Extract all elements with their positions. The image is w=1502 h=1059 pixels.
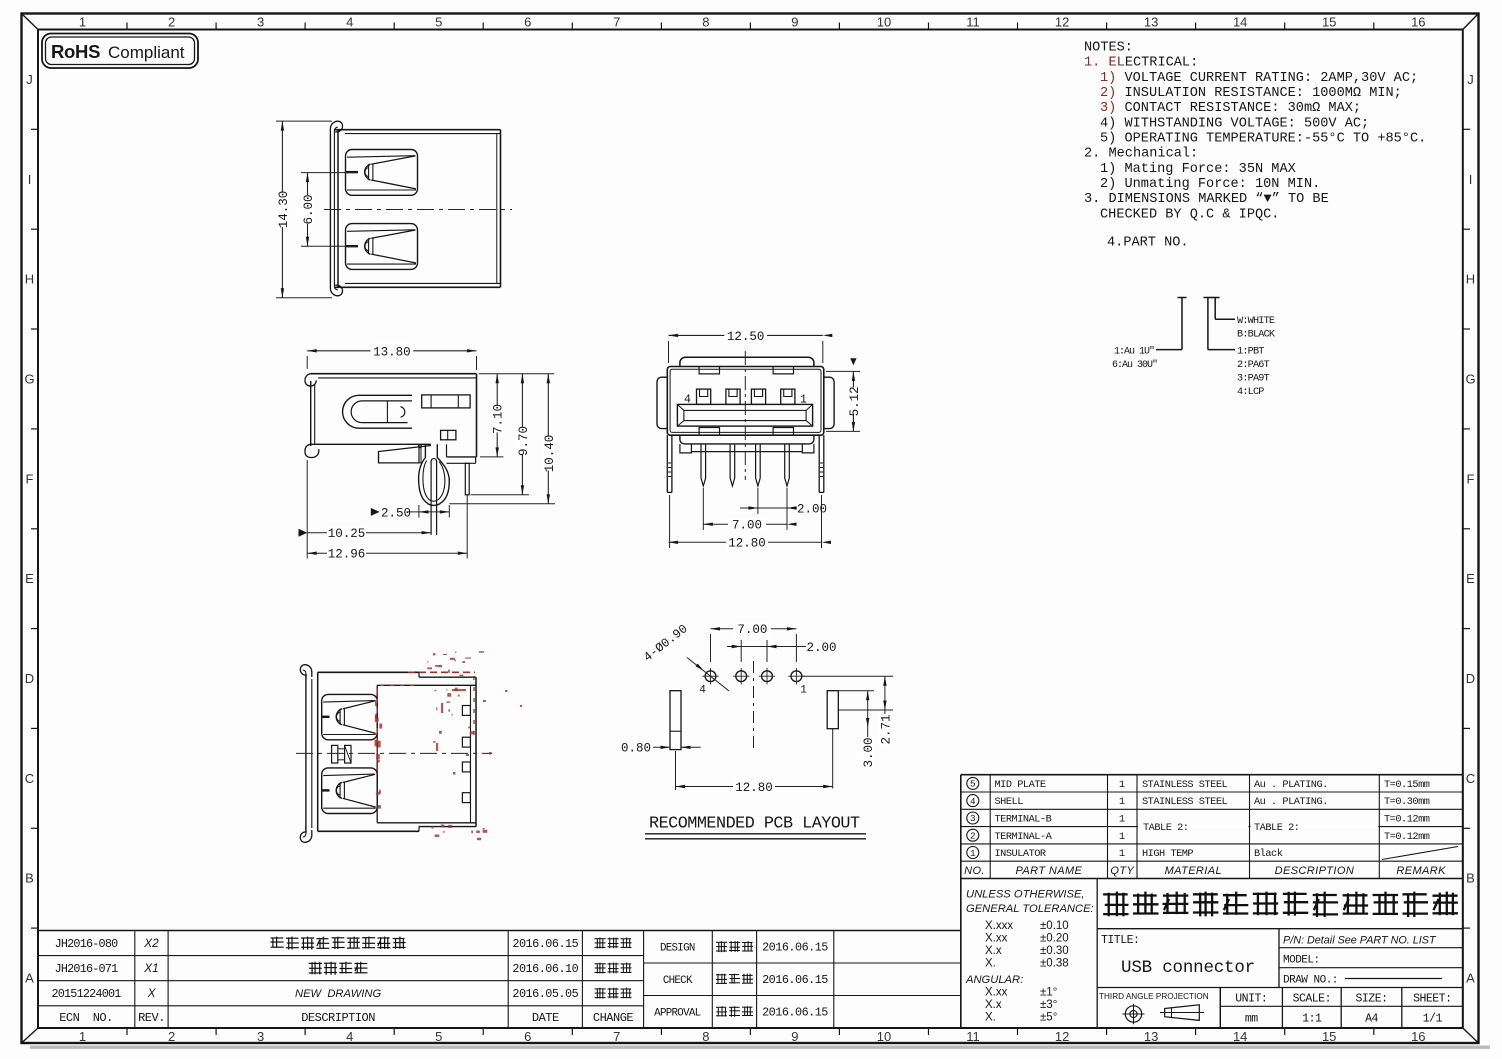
dim 13.80 [306,356,308,369]
svg-text:X: X [147,986,157,1000]
svg-text:QTY: QTY [1110,865,1134,877]
svg-text:3: 3 [970,813,976,824]
svg-text:12.96: 12.96 [328,548,366,562]
left slot (pcb) [670,691,681,750]
svg-text:STAINLESS STEEL: STAINLESS STEEL [1142,796,1228,808]
svg-text:14: 14 [1233,1029,1247,1044]
svg-text:PART NAME: PART NAME [1016,865,1083,877]
svg-text:1: 1 [1119,848,1125,860]
parts list table [961,774,1463,776]
svg-text:1: 1 [1119,814,1125,826]
svg-text:MATERIAL: MATERIAL [1165,865,1222,877]
svg-text:2.00: 2.00 [797,502,827,516]
svg-text:X.x: X.x [985,999,1002,1011]
svg-text:2) INSULATION RESISTANCE: 1000: 2) INSULATION RESISTANCE: 1000MΩ MIN; [1100,86,1402,101]
flange (bottom view) [305,676,307,831]
svg-text:3. DIMENSIONS MARKED “▼” TO BE: 3. DIMENSIONS MARKED “▼” TO BE [1084,192,1329,207]
svg-text:DRAW NO.:: DRAW NO.: [1283,975,1338,987]
svg-text:T=0.12mm: T=0.12mm [1384,831,1430,843]
svg-text:G: G [24,372,34,387]
svg-text:8: 8 [702,15,709,30]
svg-text:1: 1 [1119,779,1125,791]
svg-text:TERMINAL-B: TERMINAL-B [995,814,1052,826]
svg-text:TERMINAL-A: TERMINAL-A [995,831,1053,843]
curved shield leg [419,444,428,503]
svg-text:X.: X. [985,1012,996,1024]
svg-text:1: 1 [970,848,976,859]
ruler ticks and labels [126,23,128,30]
svg-text:X.x: X.x [985,945,1002,957]
terminal slots [462,706,470,716]
svg-text:STAINLESS STEEL: STAINLESS STEEL [1142,779,1228,791]
svg-text:USB connector: USB connector [1121,958,1255,978]
svg-text:H: H [1466,272,1475,287]
svg-text:10: 10 [877,1029,891,1044]
svg-text:MODEL:: MODEL: [1283,955,1320,967]
svg-text:5) OPERATING TEMPERATURE:-55°C: 5) OPERATING TEMPERATURE:-55°C TO +85°C. [1100,132,1426,147]
svg-text:W:WHITE: W:WHITE [1237,316,1275,327]
svg-text:C: C [25,771,34,786]
svg-text:2016.06.15: 2016.06.15 [762,1006,828,1020]
svg-text:±1°: ±1° [1040,987,1057,999]
view4 centerline [296,752,492,754]
svg-text:12: 12 [1055,1029,1069,1044]
svg-text:APPROVAL: APPROVAL [654,1008,700,1020]
pn/model/drawno cells [1279,947,1463,949]
svg-text:2: 2 [168,1029,175,1044]
svg-text:15: 15 [1322,1029,1336,1044]
svg-text:1: 1 [79,1029,86,1044]
svg-text:7.00: 7.00 [737,623,767,637]
side legs [666,435,668,492]
svg-text:H: H [25,272,34,287]
svg-text:±0.20: ±0.20 [1040,933,1069,945]
svg-text:NOTES:: NOTES: [1084,41,1133,56]
svg-text:DESCRIPTION: DESCRIPTION [1275,865,1355,877]
svg-text:2016.06.10: 2016.06.10 [512,962,578,976]
svg-text:1:Au 1U″: 1:Au 1U″ [1114,346,1154,358]
svg-text:9: 9 [791,1029,798,1044]
svg-text:D: D [25,671,34,686]
svg-text:7.10: 7.10 [492,404,506,434]
svg-text:TITLE:: TITLE: [1101,934,1139,947]
svg-text:2: 2 [970,831,976,842]
svg-text:UNIT:: UNIT: [1235,993,1267,1006]
svg-text:5.12: 5.12 [848,386,862,416]
svg-text:3: 3 [257,15,264,30]
unit/scale/size/sheet cells [1220,1005,1463,1007]
svg-text:I: I [28,172,32,187]
svg-text:Au . PLATING.: Au . PLATING. [1254,796,1328,808]
svg-text:MID PLATE: MID PLATE [995,779,1046,791]
svg-text:SHELL: SHELL [995,796,1024,808]
dims right side 7.10/9.70/10.40 [479,373,554,375]
svg-text:I: I [1469,172,1473,187]
svg-text:2. Mechanical:: 2. Mechanical: [1084,147,1198,162]
svg-text:1) Mating Force: 35N MAX: 1) Mating Force: 35N MAX [1100,162,1296,177]
svg-text:±0.30: ±0.30 [1040,945,1069,957]
svg-text:RoHS: RoHS [51,41,100,62]
svg-text:2016.06.15: 2016.06.15 [762,941,828,955]
dim 2.00 (pcb) [740,640,742,662]
svg-text:B: B [25,871,34,886]
svg-text:15: 15 [1322,15,1336,30]
svg-text:16: 16 [1411,1029,1425,1044]
dim 7.00 (view3) [702,488,704,530]
svg-text:D: D [1466,671,1475,686]
svg-text:CHANGE: CHANGE [593,1011,634,1025]
svg-text:SCALE:: SCALE: [1293,993,1331,1006]
svg-text:±0.10: ±0.10 [1040,920,1069,932]
terminal pin (side) [430,461,432,535]
svg-text:HIGH TEMP: HIGH TEMP [1142,848,1193,860]
svg-text:10: 10 [877,15,891,30]
svg-text:1: 1 [1119,831,1125,843]
dim 10.25 [306,460,308,559]
svg-text:P/N: Detail See PART NO. LIST: P/N: Detail See PART NO. LIST [1283,935,1437,947]
svg-text:8: 8 [702,1029,709,1044]
dim 2.00 (view3) [757,488,759,514]
svg-text:1:1: 1:1 [1302,1013,1322,1026]
svg-text:7.00: 7.00 [732,519,762,533]
right shield pin (side) [465,463,469,495]
svg-text:3:PA9T: 3:PA9T [1237,374,1270,385]
center latch detail [332,745,338,763]
svg-text:2.71: 2.71 [879,714,893,744]
svg-text:CHECKED BY Q.C & IPQC.: CHECKED BY Q.C & IPQC. [1100,207,1279,222]
svg-text:X.: X. [985,958,996,970]
pcb centerline [753,661,755,750]
svg-text:2016.06.15: 2016.06.15 [762,973,828,987]
svg-text:1: 1 [800,685,807,697]
svg-text:J: J [26,72,33,87]
svg-text:RECOMMENDED PCB LAYOUT: RECOMMENDED PCB LAYOUT [649,815,860,834]
shell bottom right step [447,456,477,458]
svg-text:1) VOLTAGE CURRENT RATING: 2AM: 1) VOLTAGE CURRENT RATING: 2AMP,30V AC; [1100,71,1418,86]
svg-text:T=0.15mm: T=0.15mm [1384,779,1430,791]
svg-text:12.80: 12.80 [735,781,773,795]
svg-text:5: 5 [435,1029,442,1044]
svg-text:F: F [26,471,34,486]
revision table [38,930,961,932]
red scan dashed lines [408,671,475,673]
svg-text:T=0.30mm: T=0.30mm [1384,796,1430,808]
svg-text:12: 12 [1055,15,1069,30]
svg-text:4: 4 [346,15,353,30]
svg-text:1: 1 [1119,796,1125,808]
svg-text:E: E [1466,571,1475,586]
view 3: connector front view [680,357,814,366]
svg-text:14.30: 14.30 [277,191,291,229]
tongue [677,404,812,426]
flange side [310,381,312,446]
dim 3.00 [867,691,869,765]
contacts [697,389,711,404]
svg-text:4:LCP: 4:LCP [1237,387,1264,398]
view1 contact springs [346,150,418,196]
svg-text:A4: A4 [1365,1013,1378,1026]
drop shadow under frame [30,1046,1490,1049]
red scan speckles [443,654,447,655]
dim 7.00 (pcb) [710,634,712,662]
svg-text:Black: Black [1254,848,1283,860]
insulator remark diagonal [1382,847,1458,860]
svg-text:ANGULAR:: ANGULAR: [965,974,1023,986]
projection cell [1219,988,1221,1029]
svg-text:12.50: 12.50 [727,330,765,344]
svg-text:Au . PLATING.: Au . PLATING. [1254,779,1328,791]
dim 5.12 + qc mark [826,370,860,372]
svg-text:DESIGN: DESIGN [660,943,695,955]
U spring side [343,395,412,428]
svg-text:2016.06.15: 2016.06.15 [512,937,578,951]
svg-text:Compliant: Compliant [108,43,185,62]
svg-text:DESCRIPTION: DESCRIPTION [301,1011,375,1025]
svg-text:UNLESS OTHERWISE,: UNLESS OTHERWISE, [966,889,1085,901]
svg-text:2016.05.05: 2016.05.05 [512,987,578,1001]
svg-text:NEW DRAWING: NEW DRAWING [295,988,381,1000]
svg-text:TABLE 2:: TABLE 2: [1143,822,1188,834]
right slot (pcb) [827,691,838,729]
dim 2.50 [418,505,420,518]
svg-text:JH2016-080: JH2016-080 [55,937,119,951]
svg-text:4: 4 [970,796,976,807]
svg-text:5: 5 [970,779,976,790]
svg-text:±5°: ±5° [1040,1012,1057,1024]
dim 12.96 [466,495,468,559]
svg-text:4: 4 [346,1029,353,1044]
view 1: connector top view [337,130,339,288]
shell bottom + board lock foot [315,443,431,445]
svg-text:2:PA6T: 2:PA6T [1237,360,1270,371]
svg-text:±3°: ±3° [1040,999,1057,1011]
insulator block [376,685,378,823]
svg-text:C: C [1466,771,1475,786]
view3 centerline [744,351,746,480]
body outline (bottom view) [317,672,319,831]
dim 6.00 [301,172,357,174]
svg-text:1. ELECTRICAL:: 1. ELECTRICAL: [1084,56,1198,71]
view1 centerline [324,209,512,211]
svg-text:GENERAL TOLERANCE:: GENERAL TOLERANCE: [966,903,1094,915]
svg-text:13.80: 13.80 [373,345,411,359]
dim 14.30 [276,120,332,122]
svg-text:9.70: 9.70 [517,426,531,456]
svg-text:±0.38: ±0.38 [1040,958,1069,970]
svg-text:JH2016-071: JH2016-071 [55,962,119,976]
svg-text:J: J [1467,72,1474,87]
bottom lobe [680,435,814,444]
svg-text:6.00: 6.00 [302,194,316,224]
svg-text:X2: X2 [143,936,159,950]
svg-text:0.80: 0.80 [621,742,651,756]
svg-text:14: 14 [1233,15,1247,30]
svg-text:G: G [1465,372,1475,387]
svg-text:REMARK: REMARK [1396,865,1446,877]
svg-text:1/1: 1/1 [1423,1013,1443,1026]
svg-text:20151224001: 20151224001 [51,987,121,1001]
shell holes [422,395,470,408]
svg-text:SHEET:: SHEET: [1413,993,1451,1006]
svg-text:5: 5 [435,15,442,30]
svg-text:INSULATOR: INSULATOR [995,848,1046,860]
dim 12.80 (view3) [669,495,671,548]
dim 2.71 [884,676,886,745]
svg-text:DATE: DATE [532,1011,559,1025]
view4 springs [322,694,378,739]
svg-text:SIZE:: SIZE: [1355,993,1387,1006]
svg-text:10.40: 10.40 [543,435,557,473]
dim 12.80 (pcb) [675,751,677,790]
svg-text:11: 11 [966,15,980,30]
svg-text:A: A [1466,971,1475,986]
dim 12.50 [668,341,670,363]
svg-text:F: F [1467,471,1475,486]
svg-text:2.00: 2.00 [807,641,837,655]
svg-text:A: A [25,971,34,986]
RoHS Compliant badge [42,34,198,69]
svg-text:REV.: REV. [138,1011,165,1025]
svg-text:E: E [25,571,34,586]
svg-text:1: 1 [79,15,86,30]
svg-text:6: 6 [524,1029,531,1044]
svg-text:ECN NO.: ECN NO. [59,1011,113,1025]
svg-text:4: 4 [699,685,706,697]
svg-text:X.xx: X.xx [985,933,1008,945]
svg-text:12.80: 12.80 [728,537,766,551]
svg-text:13: 13 [1144,15,1158,30]
tolerance block [960,879,962,1029]
svg-text:B: B [1466,871,1475,886]
svg-text:2: 2 [168,15,175,30]
part number legend tree [1181,298,1183,350]
svg-text:10.25: 10.25 [328,527,366,541]
svg-text:1:PBT: 1:PBT [1237,347,1264,358]
svg-text:CHECK: CHECK [663,975,693,987]
svg-text:3: 3 [257,1029,264,1044]
bottom notches [699,428,719,436]
pcb holes [705,671,716,682]
corner diagonals [22,14,39,30]
ext line hole1 to 2.71 [803,675,894,677]
svg-text:9: 9 [791,15,798,30]
svg-text:16: 16 [1411,15,1425,30]
pins front [701,444,706,486]
svg-text:NO.: NO. [964,865,985,877]
svg-text:3.00: 3.00 [862,737,876,767]
svg-text:THIRD ANGLE PROJECTION: THIRD ANGLE PROJECTION [1099,992,1209,1001]
svg-text:T=0.12mm: T=0.12mm [1384,814,1430,826]
svg-text:B:BLACK: B:BLACK [1237,330,1276,341]
company name (CJK glyph strokes) [1097,928,1463,930]
svg-text:X.xx: X.xx [985,987,1008,999]
svg-text:7: 7 [613,1029,620,1044]
svg-text:2.50: 2.50 [381,506,411,520]
svg-text:13: 13 [1144,1029,1158,1044]
side wings [657,377,667,428]
svg-text:TABLE 2:: TABLE 2: [1254,822,1299,834]
mounting flange (edge view) [329,134,331,283]
svg-text:6: 6 [524,15,531,30]
svg-text:mm: mm [1245,1013,1258,1026]
svg-text:7: 7 [613,15,620,30]
svg-text:2) Unmating Force: 10N MIN.: 2) Unmating Force: 10N MIN. [1100,177,1320,192]
view 2: connector side view [311,373,477,375]
svg-text:3) CONTACT RESISTANCE: 30mΩ MA: 3) CONTACT RESISTANCE: 30mΩ MAX; [1100,101,1361,116]
title cell [1097,987,1463,989]
svg-text:4.PART NO.: 4.PART NO. [1107,236,1189,251]
top notches [699,367,719,374]
svg-text:X1: X1 [143,961,158,975]
svg-text:4) WITHSTANDING VOLTAGE: 500V: 4) WITHSTANDING VOLTAGE: 500V AC; [1100,116,1369,131]
svg-text:6:Au 30U″: 6:Au 30U″ [1112,359,1157,371]
svg-text:X.xxx: X.xxx [985,920,1013,932]
svg-text:11: 11 [966,1029,980,1044]
